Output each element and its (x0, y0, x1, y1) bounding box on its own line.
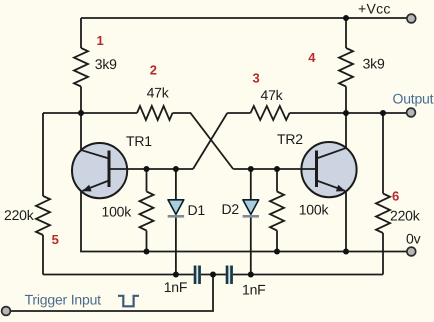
svg-text:5: 5 (52, 232, 59, 247)
svg-text:TR2: TR2 (277, 131, 303, 147)
svg-text:D2: D2 (222, 201, 240, 217)
svg-text:+Vcc: +Vcc (358, 1, 391, 17)
svg-text:Output: Output (393, 91, 434, 107)
svg-text:2: 2 (150, 63, 157, 78)
svg-text:220k: 220k (4, 207, 35, 223)
svg-text:D1: D1 (188, 202, 206, 218)
svg-text:100k: 100k (102, 204, 133, 220)
svg-text:47k: 47k (147, 85, 170, 101)
svg-text:0v: 0v (406, 231, 421, 247)
svg-text:1nF: 1nF (164, 279, 188, 295)
svg-text:3k9: 3k9 (95, 56, 117, 72)
svg-text:220k: 220k (390, 208, 421, 224)
svg-text:47k: 47k (261, 87, 284, 103)
svg-text:4: 4 (308, 50, 316, 65)
svg-text:100k: 100k (299, 202, 330, 218)
svg-text:3k9: 3k9 (363, 56, 385, 72)
svg-text:1nF: 1nF (242, 282, 266, 298)
svg-text:1: 1 (97, 33, 104, 48)
svg-text:6: 6 (392, 189, 399, 204)
svg-text:Trigger Input: Trigger Input (25, 292, 102, 308)
svg-text:3: 3 (253, 71, 260, 86)
svg-text:TR1: TR1 (126, 133, 152, 149)
